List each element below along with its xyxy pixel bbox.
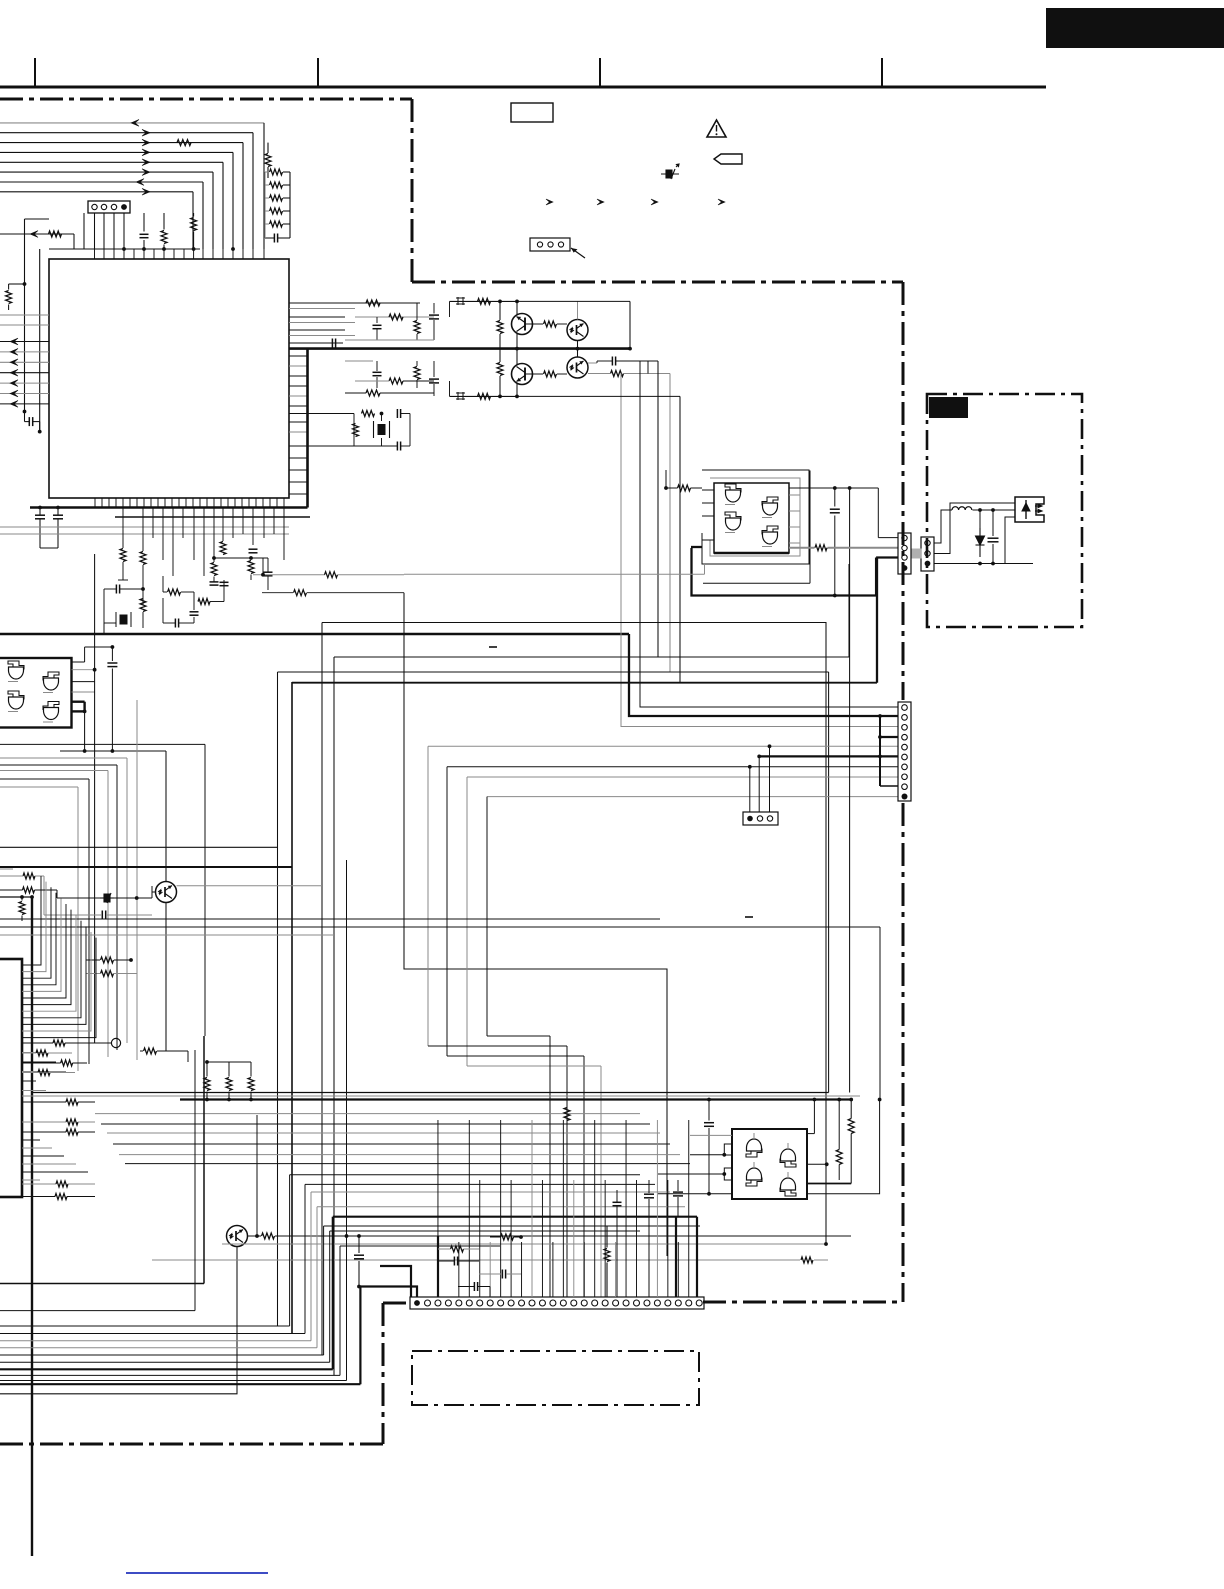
IC5 cap — [704, 1122, 714, 1124]
net label dash 2 — [745, 916, 753, 918]
mid stair 5 — [428, 745, 898, 747]
pwr pin2 wire — [934, 503, 1015, 554]
warning triangle — [707, 120, 726, 137]
legend connector 3p — [530, 238, 570, 251]
transistor Q5 — [156, 882, 177, 903]
bus arrows — [131, 120, 139, 127]
pullup top-left — [6, 291, 12, 304]
THICK mid bus y634 — [0, 633, 629, 636]
IC4 gate A — [726, 490, 741, 502]
IC5 inputs — [690, 1154, 724, 1156]
mid stair 10 — [487, 796, 898, 798]
pwr junctions — [978, 508, 982, 512]
Q1 emitter through — [516, 333, 518, 366]
Q1 collector — [516, 301, 518, 315]
vert x346 long — [346, 860, 348, 1381]
IC5 gate D — [781, 1178, 796, 1190]
loop C — [278, 671, 829, 673]
Q6 base res — [248, 1235, 262, 1237]
cap v E — [249, 548, 258, 550]
legend zener symbol — [661, 164, 679, 179]
zener mid — [100, 893, 114, 903]
IC3 cap top — [107, 662, 117, 664]
legend arrow 1 — [546, 199, 553, 205]
grey return y1244 — [222, 1243, 826, 1245]
res left a — [23, 873, 35, 879]
IC4 loop outer — [702, 470, 809, 564]
CN_top4 pin wires — [94, 213, 96, 249]
vert x648 stub — [647, 361, 649, 374]
pointer pentagon — [714, 154, 742, 164]
IC3 quad gate body — [0, 658, 72, 728]
THICK stub y867 — [0, 866, 292, 868]
IC4 gate C — [726, 518, 741, 530]
loop B — [334, 656, 849, 658]
IC5 gate B — [781, 1149, 796, 1161]
res below rail C — [66, 1129, 78, 1135]
wire y847 — [0, 846, 278, 848]
legend arrow 2 — [597, 199, 604, 205]
transistor Q2 — [567, 320, 588, 341]
res rows IC2 — [36, 1050, 48, 1056]
grey mid horizontals — [95, 1113, 640, 1115]
long vert x94.6 — [94, 554, 96, 1043]
wire to pin1 — [877, 488, 879, 538]
vert x658 to loopB — [657, 361, 659, 657]
phantom border right vertical lower — [902, 803, 905, 1302]
res left b — [23, 887, 35, 893]
IC4 gate D — [763, 532, 778, 544]
LED low wire — [1005, 517, 1015, 564]
out res — [611, 371, 624, 377]
wire y1246 — [340, 1245, 500, 1247]
THICK drop x697 — [696, 1217, 698, 1297]
feed res — [144, 1048, 157, 1054]
THICK drop x438 — [437, 1236, 439, 1297]
bus drop verticals — [263, 123, 265, 249]
Q4 outputs — [588, 362, 597, 364]
IC5 res mid — [838, 1100, 840, 1150]
phantom border bottom right seg — [703, 1301, 903, 1304]
thick pin1 feed — [360, 1287, 417, 1298]
phantom border bottom left seg — [383, 1302, 411, 1305]
IC5 res chain right — [850, 1100, 852, 1119]
Q6 emitter down — [0, 1247, 237, 1394]
drop components — [501, 1234, 514, 1240]
crystal cluster — [289, 413, 354, 415]
IC1 main IC body — [49, 259, 289, 498]
CN_mid3 risers — [749, 767, 751, 812]
RC mid I — [198, 599, 210, 605]
bottom-left bundle — [0, 1283, 204, 1285]
power box label (filled) — [929, 397, 968, 418]
Q3 rail ext — [517, 395, 680, 397]
Q3 emitter — [516, 383, 518, 397]
cap mid — [101, 911, 103, 920]
phantom border horizontal y282 — [412, 281, 903, 284]
res v D — [211, 563, 217, 576]
net label dash 1 — [489, 646, 497, 648]
open circle TP — [111, 1038, 120, 1047]
THICK vert x629 to pin2 — [629, 634, 898, 716]
IC2 pin wires mid — [22, 1042, 36, 1044]
mid stair 8 — [467, 776, 898, 778]
vert x670 to loopC — [669, 374, 671, 673]
res bottom pair — [22, 1183, 56, 1185]
line with cap to net — [289, 342, 343, 344]
crystal X1 — [378, 424, 386, 435]
border tick 4 — [881, 58, 883, 87]
IC5 gate C — [747, 1168, 762, 1180]
IC5 thick out — [807, 1183, 851, 1185]
IC4 left stubs — [702, 489, 714, 491]
res v left — [19, 902, 25, 915]
connector wires right — [880, 736, 898, 738]
vert x680 to loopD — [679, 396, 681, 682]
IC5 out D — [807, 1163, 827, 1165]
IC1 bottom pin field — [94, 498, 96, 508]
rail y919 — [0, 918, 660, 920]
IC4 right stubs — [789, 494, 800, 496]
res R near IC1 top — [161, 231, 167, 244]
IC4 gate B — [763, 503, 778, 515]
THICK 1216 rail — [333, 1216, 697, 1218]
phantom border bottom — [0, 1443, 383, 1446]
IC3 gate A — [9, 667, 24, 679]
IC3 gate B — [44, 678, 59, 690]
vert x621 to pin3 — [621, 374, 898, 727]
IC1 left plain pins — [0, 314, 49, 316]
IC2 pin L-wires upper — [22, 876, 41, 965]
border tick 3 — [599, 58, 601, 87]
rail pair long — [32, 1092, 829, 1094]
THICK IC1 right vert — [306, 349, 309, 508]
border tick 2 — [317, 58, 319, 87]
IC5 body — [732, 1129, 807, 1199]
base res rail — [497, 321, 503, 334]
connector jumper — [879, 716, 881, 786]
pin drops below bus — [122, 508, 124, 549]
pwr gnd rail — [934, 563, 1033, 565]
THICK rail H1 — [289, 347, 630, 350]
res R2 IC1 top right — [191, 218, 197, 231]
grey link y574 — [404, 573, 705, 575]
mid stair 7 — [447, 766, 898, 768]
IC2 lower pins — [22, 1139, 40, 1141]
THICK pin bus under IC1 — [30, 506, 308, 509]
vert x263 connect — [262, 558, 264, 575]
border tick 1 — [34, 58, 36, 87]
IC1 right pin stubs lower — [289, 355, 308, 357]
thick to pin3 — [876, 556, 898, 558]
IC2 large IC body — [0, 959, 22, 1197]
cap v K2 — [264, 571, 273, 573]
driver rail top — [450, 300, 517, 302]
vert x257 — [256, 1115, 258, 1236]
Q3-Q4 res — [525, 373, 543, 375]
Q5 wires — [151, 886, 153, 898]
res v C — [220, 542, 226, 555]
LED arrow — [1022, 500, 1030, 519]
IC3 gate C — [9, 697, 24, 709]
loop top rights — [290, 1174, 640, 1176]
bottom option phantom box — [412, 1351, 699, 1405]
IC5 gate A — [747, 1139, 762, 1151]
left bundle verticals long — [103, 623, 105, 634]
res pair x107 — [101, 957, 114, 963]
wire long y558 — [214, 557, 268, 559]
RC mid H — [168, 589, 181, 595]
pin bus 2 under IC1 — [115, 516, 310, 518]
IC1 top pin stubs — [94, 249, 96, 259]
bus lines top-left — [0, 122, 264, 124]
phantom border left vertical lower — [382, 1303, 385, 1444]
junction dots on pin bus — [122, 247, 126, 251]
IC1 left arrow pins — [0, 341, 49, 343]
driver rail bottom — [450, 395, 517, 397]
loop A — [322, 623, 826, 1245]
THICK left vert x32 — [31, 897, 33, 1556]
Q4 up — [577, 349, 579, 357]
zener pwr — [976, 528, 985, 557]
res below rail B — [66, 1119, 78, 1125]
cap h F — [115, 585, 117, 594]
rail vert x849 — [849, 488, 851, 1093]
vert x334 down — [333, 657, 335, 1375]
pwr pin1 wire — [934, 510, 952, 543]
page top border — [0, 86, 1046, 89]
Q1-Q2 res — [525, 323, 543, 325]
res below rail A — [66, 1099, 78, 1105]
transistor Q1 — [512, 314, 533, 335]
Q2 top out — [577, 301, 579, 319]
nest wires below IC3 — [0, 743, 205, 745]
rc-rail links — [449, 301, 451, 317]
legend arrow 4 — [718, 199, 725, 205]
grey rail y935 — [0, 934, 334, 936]
IC1 right pin stubs upper — [289, 302, 345, 304]
CN_pwr3 body — [921, 537, 934, 571]
resistor R vertical — [265, 154, 271, 167]
legend arrow 3 — [651, 199, 658, 205]
wire y592 with res — [262, 592, 293, 594]
cap x359 — [358, 1236, 360, 1253]
connector CN_top4 — [88, 201, 130, 213]
bias network row2 — [373, 371, 382, 373]
IC3 pin stubs — [72, 669, 95, 671]
legend pointer arrow — [571, 248, 585, 258]
transistor Q4 — [567, 357, 588, 378]
stair bottoms — [428, 1045, 567, 1047]
phantom border top — [0, 98, 412, 101]
out cap — [611, 357, 613, 366]
CN28 connector body — [410, 1297, 704, 1309]
cap pwr — [988, 537, 999, 539]
phantom border right vertical upper — [902, 282, 905, 700]
CN28 pin drops — [437, 1120, 439, 1297]
IC3 top wire — [85, 646, 113, 648]
IC5 out B — [807, 1133, 814, 1135]
grey tab pwr — [912, 549, 922, 559]
vert x322 down — [321, 623, 323, 1356]
thick elbow left CN28 — [380, 1266, 411, 1297]
LED rays — [1035, 504, 1042, 512]
title block (filled) — [1046, 8, 1224, 48]
crystal low — [116, 612, 131, 627]
IC3 gate D — [44, 708, 59, 720]
Q2 down — [577, 341, 579, 349]
Q5 collector riser — [165, 751, 167, 882]
THICK IC4 gnd — [692, 548, 877, 596]
LED module — [1015, 497, 1044, 522]
legend box — [511, 103, 553, 122]
grey pin buses under IC1 — [0, 526, 289, 528]
IC4 cap — [830, 508, 840, 510]
cap C near IC1 top — [140, 233, 149, 235]
CN_right10 body — [898, 702, 911, 801]
IC4 input res — [678, 485, 691, 491]
IC4 loop inner — [710, 478, 800, 556]
pullup array resistors — [270, 169, 283, 175]
resistor R on bus — [177, 140, 191, 146]
res v G — [140, 599, 146, 612]
wire y575 with res — [253, 574, 325, 576]
inductor L1 — [952, 507, 972, 510]
IC3 thick pin — [72, 701, 85, 703]
mid loop E — [404, 593, 667, 1256]
res v J — [248, 561, 254, 574]
pull res trio — [206, 1062, 208, 1077]
transistor Q6 — [227, 1226, 248, 1247]
bias network row1 — [345, 302, 420, 304]
IC4 vcc rail — [789, 487, 878, 489]
left rail verticals — [24, 219, 26, 412]
CN_mid3 body — [743, 812, 778, 825]
IC4 extra loop — [703, 582, 810, 584]
IC5 right loop — [807, 1100, 880, 1194]
IC5 bottom wire — [658, 1193, 732, 1195]
THICK drop x676 — [675, 1217, 677, 1297]
vert x640 to pin1 — [640, 361, 898, 707]
vert x292 down thick — [291, 682, 293, 1334]
IC5 left elbows — [724, 1144, 732, 1155]
vert x277 down — [277, 672, 279, 1326]
left entry arrow wire — [0, 233, 74, 235]
cap on left rail — [28, 417, 30, 426]
power phantom box — [927, 394, 1082, 627]
array capacitor — [273, 234, 275, 243]
res wire y1260 — [152, 1259, 800, 1261]
pin bus over IC1 — [49, 248, 200, 250]
blue underline — [126, 1572, 268, 1574]
rail y927 — [0, 926, 880, 928]
phantom border upper right vertical — [411, 99, 414, 282]
array rails — [289, 172, 291, 238]
res v A — [120, 549, 126, 562]
collector feed — [629, 301, 631, 348]
CN_out4 body — [898, 533, 911, 574]
THICK rail y1100 — [180, 1098, 851, 1100]
loop D thick — [292, 682, 877, 684]
caps bottom of left rails — [35, 514, 45, 516]
grey out to pin2 — [789, 547, 815, 549]
IC3 out down — [84, 712, 86, 751]
transistor Q3 — [512, 364, 533, 385]
IC4 body — [714, 483, 789, 553]
res v B — [140, 552, 146, 565]
